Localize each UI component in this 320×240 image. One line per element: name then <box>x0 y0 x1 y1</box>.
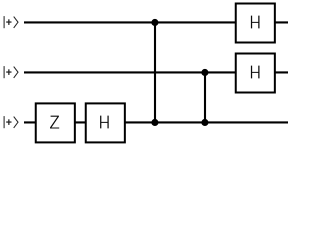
control dot q3 left <box>151 119 158 126</box>
wire qubit 2 <box>24 71 288 73</box>
CZ vertical wire q1-q3 <box>154 22 156 122</box>
gate H box (qubit 3) <box>86 103 125 142</box>
gate H letter (qubit 2) <box>251 66 260 79</box>
gate H box (qubit 2) <box>236 54 275 93</box>
control dot q2 <box>201 69 208 76</box>
wire qubit 3 <box>24 121 288 123</box>
CZ vertical wire q2-q3 <box>204 72 206 122</box>
gate H letter (qubit 1) <box>251 16 260 29</box>
control dot q3 right <box>201 119 208 126</box>
gate H box (qubit 1) <box>236 4 275 43</box>
gate Z letter <box>50 116 59 129</box>
ket label |+> qubit 2 <box>4 66 18 78</box>
gate H letter (qubit 3) <box>100 116 109 129</box>
gate Z box (qubit 3) <box>36 103 75 142</box>
control dot q1 <box>151 19 158 26</box>
ket label |+> qubit 1 <box>4 16 18 28</box>
ket label |+> qubit 3 <box>4 116 18 128</box>
wire qubit 1 <box>24 21 288 23</box>
